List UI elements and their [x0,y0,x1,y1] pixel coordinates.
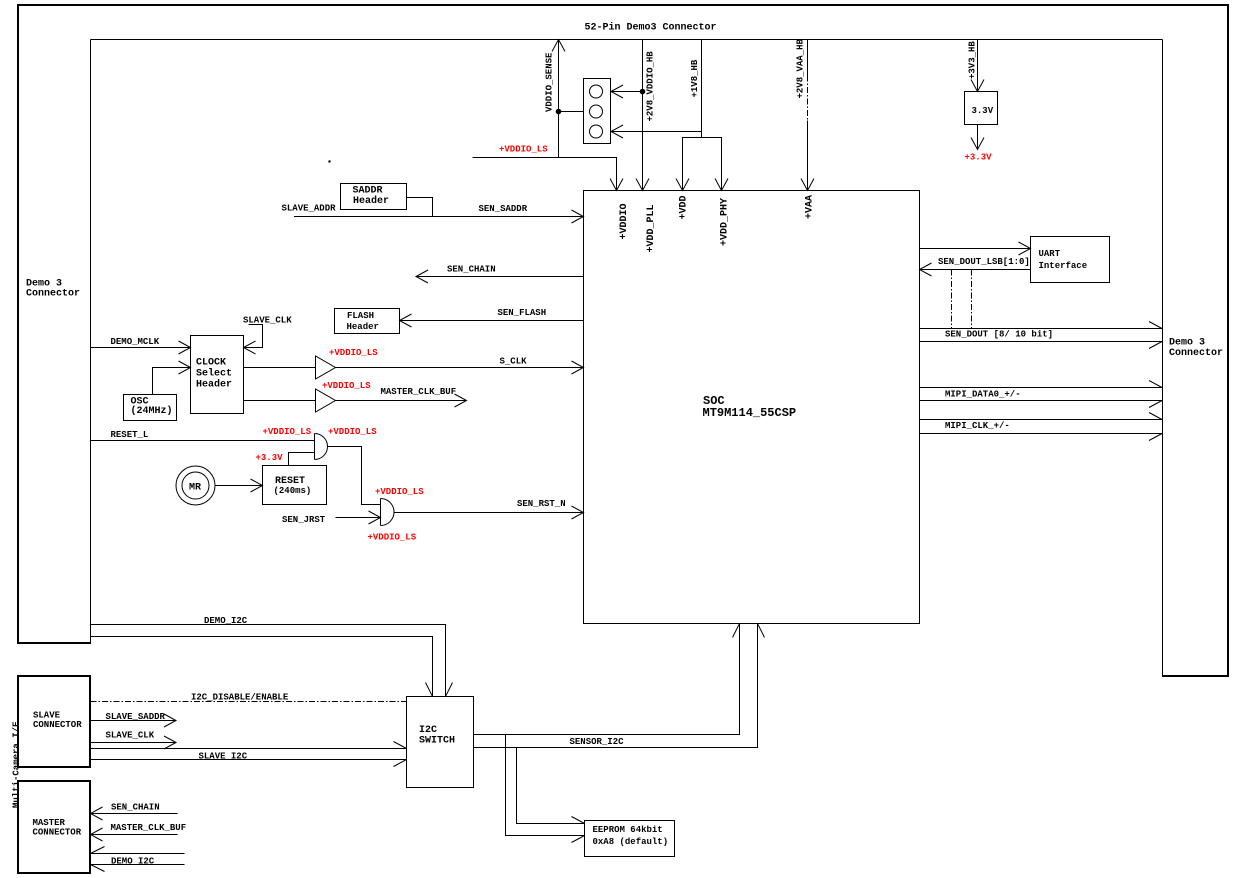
svg-text:SLAVE_CLK: SLAVE_CLK [106,731,155,741]
svg-text:CLOCK: CLOCK [196,358,226,369]
svg-text:+2V8_VAA_HB: +2V8_VAA_HB [796,38,806,98]
svg-text:+VDDIO_LS: +VDDIO_LS [328,427,377,437]
svg-text:0xA8 (default): 0xA8 (default) [593,837,669,847]
svg-text:Header: Header [196,379,232,391]
svg-text:Header: Header [353,195,389,207]
svg-text:SEN_JRST: SEN_JRST [282,515,326,525]
svg-text:CONNECTOR: CONNECTOR [33,720,82,730]
svg-text:MASTER_CLK_BUF: MASTER_CLK_BUF [381,387,457,397]
svg-text:Interface: Interface [1039,261,1088,271]
svg-text:+VDDIO: +VDDIO [619,203,630,239]
svg-text:DEMO_MCLK: DEMO_MCLK [111,337,160,347]
svg-text:FLASH: FLASH [347,311,374,321]
svg-text:+VDD_PHY: +VDD_PHY [720,198,731,246]
svg-text:S_CLK: S_CLK [500,357,528,367]
svg-text:CONNECTOR: CONNECTOR [33,828,82,838]
svg-text:MASTER: MASTER [33,818,66,828]
svg-text:+VDD_PLL: +VDD_PLL [646,204,657,252]
svg-text:SADDR: SADDR [353,186,383,197]
svg-text:SLAVE_ADDR: SLAVE_ADDR [282,204,337,214]
svg-text:+VDDIO_LS: +VDDIO_LS [499,145,548,155]
svg-text:MR: MR [189,483,201,494]
svg-text:MT9M114_55CSP: MT9M114_55CSP [703,406,797,420]
svg-text:+3V3_HB: +3V3_HB [968,41,978,79]
svg-text:SENSOR_I2C: SENSOR_I2C [570,737,625,747]
svg-text:SLAVE_I2C: SLAVE_I2C [199,752,248,762]
svg-text:SEN_SADDR: SEN_SADDR [479,204,528,214]
svg-text:MIPI_DATA0_+/-: MIPI_DATA0_+/- [945,390,1021,400]
svg-text:SEN_CHAIN: SEN_CHAIN [447,265,496,275]
svg-text:Connector: Connector [26,289,80,300]
svg-text:SLAVE_SADDR: SLAVE_SADDR [106,712,166,722]
svg-text:Connector: Connector [1169,348,1223,359]
svg-text:Demo 3: Demo 3 [1169,338,1205,349]
svg-text:DEMO_I2C: DEMO_I2C [204,616,248,626]
svg-text:Select: Select [196,368,232,380]
svg-text:VDDIO_SENSE: VDDIO_SENSE [545,52,555,112]
svg-text:+VDDIO_LS: +VDDIO_LS [368,533,417,543]
svg-text:I2C_DISABLE/ENABLE: I2C_DISABLE/ENABLE [191,693,289,703]
svg-text:SEN_DOUT [8/ 10 bit]: SEN_DOUT [8/ 10 bit] [945,330,1053,340]
svg-text:MIPI_CLK_+/-: MIPI_CLK_+/- [945,421,1010,431]
svg-text:EEPROM 64kbit: EEPROM 64kbit [593,825,663,835]
svg-text:UART: UART [1039,249,1061,259]
svg-text:+3.3V: +3.3V [256,453,284,463]
svg-text:SEN_CHAIN: SEN_CHAIN [111,803,160,813]
svg-text:SWITCH: SWITCH [419,736,455,747]
svg-text:RESET_L: RESET_L [111,430,149,440]
svg-text:(24MHz): (24MHz) [131,405,173,417]
svg-text:+1V8_HB: +1V8_HB [690,59,700,97]
svg-text:SLAVE: SLAVE [33,711,61,721]
svg-text:SEN_DOUT_LSB[1:0]: SEN_DOUT_LSB[1:0] [938,257,1030,267]
svg-text:+2V8_VDDIO_HB: +2V8_VDDIO_HB [646,51,656,122]
svg-text:+VDDIO_LS: +VDDIO_LS [322,381,371,391]
svg-text:SEN_FLASH: SEN_FLASH [498,308,547,318]
svg-text:+VDD: +VDD [679,195,690,219]
svg-text:DEMO_I2C: DEMO_I2C [111,857,155,867]
svg-text:+3.3V: +3.3V [965,153,993,163]
svg-text:Multi-Camera I/F: Multi-Camera I/F [12,722,22,808]
svg-text:+VAA: +VAA [805,195,816,219]
svg-text:+VDDIO_LS: +VDDIO_LS [263,427,312,437]
svg-text:+VDDIO_LS: +VDDIO_LS [375,487,424,497]
svg-text:(240ms): (240ms) [274,486,312,496]
svg-text:I2C: I2C [419,725,437,736]
svg-text:52-Pin Demo3 Connector: 52-Pin Demo3 Connector [585,22,717,34]
svg-text:Header: Header [347,322,379,332]
svg-text:3.3V: 3.3V [972,106,994,116]
svg-text:SEN_RST_N: SEN_RST_N [517,499,566,509]
svg-text:MASTER_CLK_BUF: MASTER_CLK_BUF [111,823,187,833]
svg-text:+VDDIO_LS: +VDDIO_LS [329,348,378,358]
